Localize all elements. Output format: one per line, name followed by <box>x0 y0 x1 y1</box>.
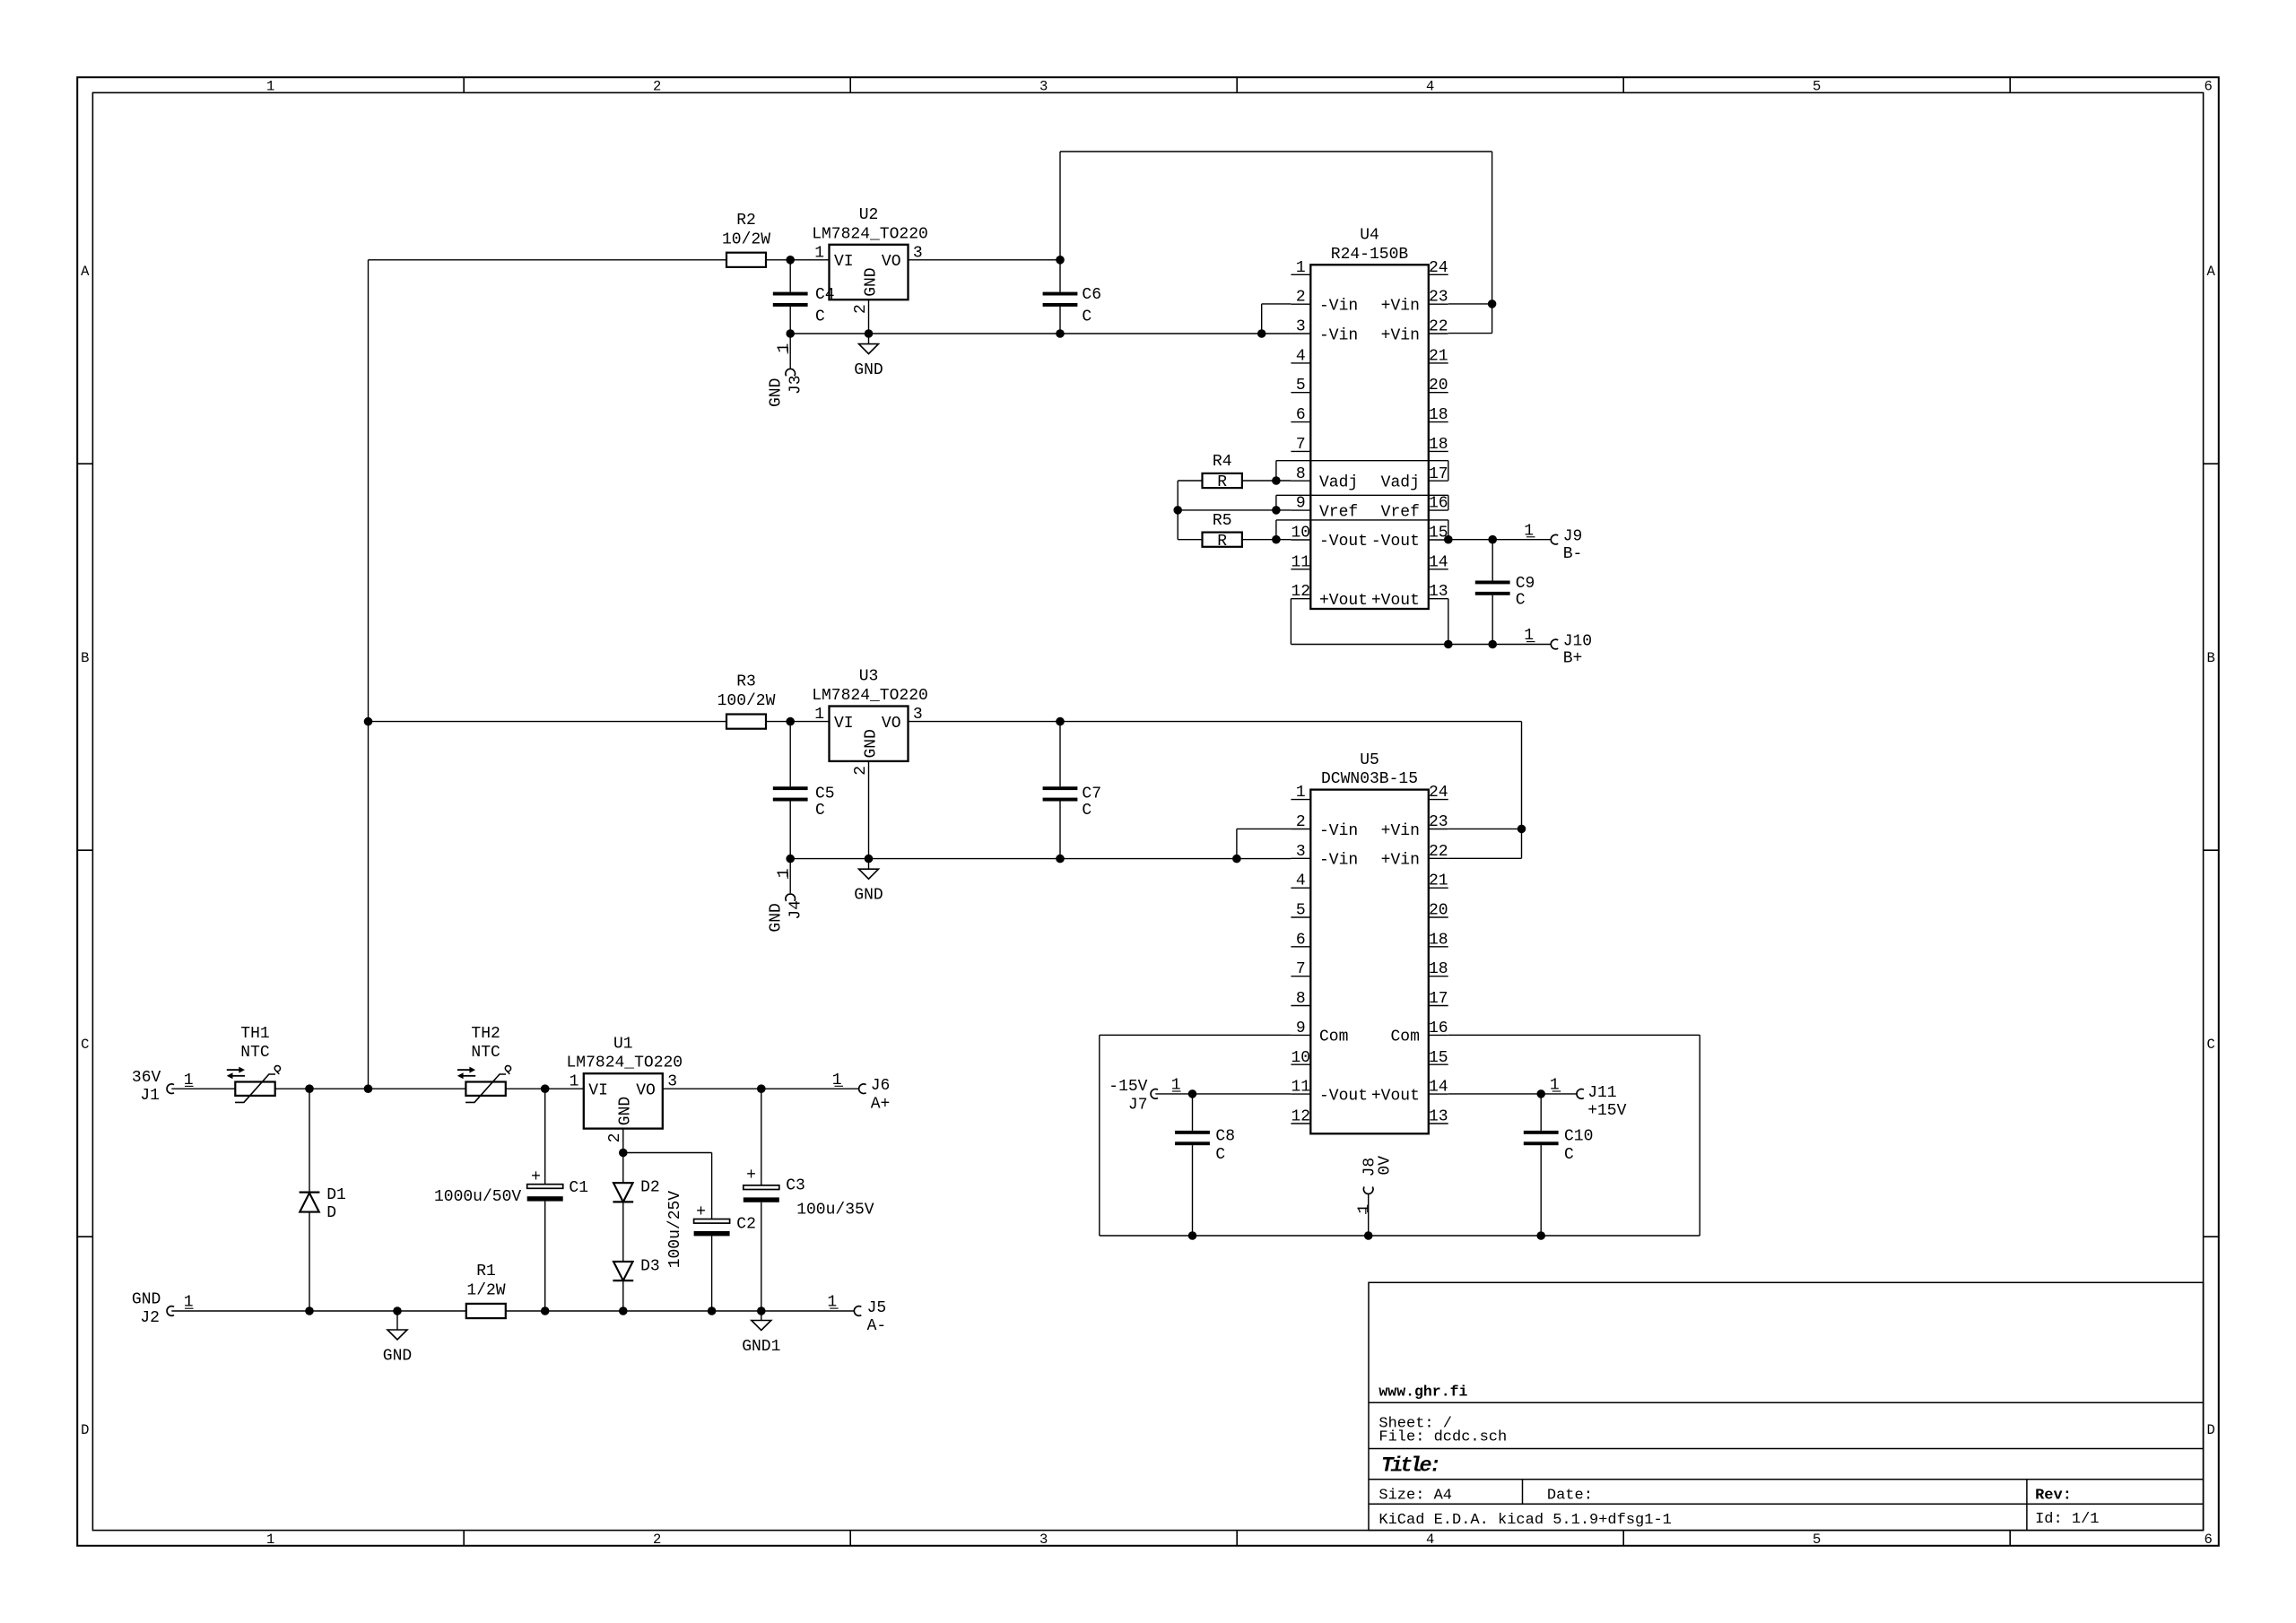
svg-text:VO: VO <box>882 253 901 271</box>
wire R4 right to pin8 <box>1242 480 1291 482</box>
svg-text:-Vout: -Vout <box>1319 1087 1368 1105</box>
connector J1 <box>167 1084 174 1094</box>
diode D3 <box>613 1262 633 1280</box>
wire J7 to -Vout pin11 <box>1155 1093 1291 1095</box>
svg-text:2: 2 <box>653 1532 661 1548</box>
junction (1664,602) <box>1488 535 1497 544</box>
U5 pin 18 <box>1429 976 1448 977</box>
U4 pin 3 -Vin <box>1291 333 1310 334</box>
svg-text:www.ghr.fi: www.ghr.fi <box>1378 1383 1467 1400</box>
svg-text:+Vin: +Vin <box>1381 326 1420 344</box>
U5 pin 6 <box>1291 946 1310 948</box>
svg-text:C1: C1 <box>569 1179 588 1197</box>
wire R5 right to pin10 <box>1242 539 1291 541</box>
U4 pin 22 +Vin <box>1429 333 1448 334</box>
svg-text:C: C <box>2207 1037 2215 1053</box>
svg-text:J11: J11 <box>1587 1084 1616 1102</box>
junction (881,290) <box>786 256 795 265</box>
svg-text:J3: J3 <box>787 375 805 395</box>
U4 pin 8 Vadj <box>1291 480 1310 482</box>
capacitor C2 <box>694 1219 730 1224</box>
svg-text:J6: J6 <box>871 1077 891 1095</box>
svg-text:11: 11 <box>1291 553 1310 571</box>
wire U2 VO to C6 <box>909 259 1061 261</box>
svg-text:R5: R5 <box>1213 512 1232 530</box>
svg-text:J2: J2 <box>140 1309 160 1327</box>
svg-text:100/2W: 100/2W <box>717 692 776 710</box>
svg-text:+: + <box>696 1203 706 1221</box>
junction (1407,372) <box>1257 329 1266 338</box>
connector J11 <box>1577 1089 1584 1099</box>
svg-text:Date:: Date: <box>1547 1488 1593 1505</box>
capacitor C9 <box>1492 540 1493 581</box>
U5 pin 1 <box>1291 799 1310 801</box>
U4 pin 17 Vadj <box>1429 480 1448 482</box>
Com loop wire <box>1100 1034 1291 1036</box>
svg-text:20: 20 <box>1429 902 1448 920</box>
U5 pin 14 +Vout <box>1429 1093 1448 1095</box>
U4 pin 1 <box>1291 273 1310 275</box>
wire pin22 U4 <box>1448 333 1492 334</box>
svg-text:GND: GND <box>768 903 786 932</box>
svg-text:C8: C8 <box>1215 1128 1235 1146</box>
svg-text:D3: D3 <box>640 1257 660 1275</box>
svg-text:2: 2 <box>852 304 870 314</box>
svg-text:C: C <box>1082 802 1091 820</box>
diode D1 <box>309 1089 310 1192</box>
junction (1615,602) <box>1444 535 1453 544</box>
capacitor C3 <box>761 1089 762 1185</box>
svg-text:+: + <box>746 1167 756 1185</box>
U5 pin 11 -Vout <box>1291 1093 1310 1095</box>
svg-text:21: 21 <box>1429 872 1448 890</box>
svg-text:-Vin: -Vin <box>1319 326 1358 344</box>
svg-text:1: 1 <box>266 1532 274 1548</box>
wire rail to U5 -Vin jog <box>1237 828 1291 829</box>
junction (410,1214) <box>364 1084 373 1093</box>
U5 pin 4 <box>1291 887 1310 889</box>
top feed wire to U4 +Vin <box>1060 151 1492 152</box>
wire pin22 U5 <box>1448 857 1522 859</box>
wire R2 to U2 VI <box>766 259 830 261</box>
svg-text:5: 5 <box>1813 1532 1821 1548</box>
svg-text:J1: J1 <box>140 1087 160 1105</box>
svg-text:4: 4 <box>1426 78 1434 94</box>
svg-text:3: 3 <box>1296 843 1306 861</box>
svg-text:File: dcdc.sch: File: dcdc.sch <box>1378 1428 1507 1445</box>
svg-text:+Vin: +Vin <box>1381 298 1420 316</box>
svg-text:1: 1 <box>1296 259 1306 277</box>
wire U1 VO to J6 <box>663 1088 859 1089</box>
svg-text:3: 3 <box>1039 78 1048 94</box>
svg-text:1/2W: 1/2W <box>466 1282 505 1300</box>
junction (1718,1378) <box>1536 1231 1545 1240</box>
svg-text:KiCad E.D.A. kicad 5.1.9+dfsg: KiCad E.D.A. kicad 5.1.9+dfsg1-1 <box>1378 1512 1671 1529</box>
svg-text:LM7824_TO220: LM7824_TO220 <box>812 225 928 243</box>
junction (1330,1378) <box>1188 1231 1197 1240</box>
svg-text:Com: Com <box>1390 1028 1419 1046</box>
svg-text:-15V: -15V <box>1109 1078 1147 1096</box>
resistor R1 <box>466 1304 506 1318</box>
svg-text:GND: GND <box>132 1291 161 1309</box>
svg-text:Size: A4: Size: A4 <box>1378 1488 1452 1505</box>
junction (968,958) <box>865 855 874 864</box>
svg-text:C: C <box>1082 308 1091 326</box>
svg-text:A: A <box>81 264 90 280</box>
U4 pin 15 -Vout <box>1429 539 1448 541</box>
svg-text:C: C <box>815 308 825 326</box>
svg-text:+Vout: +Vout <box>1319 592 1368 610</box>
wire rail to U4 -Vin jog <box>1262 303 1291 305</box>
svg-text:+15V: +15V <box>1587 1102 1626 1120</box>
junction (695,1286) <box>619 1149 628 1158</box>
svg-text:5: 5 <box>1296 902 1306 920</box>
svg-text:D: D <box>326 1204 336 1222</box>
svg-text:2: 2 <box>1296 813 1306 831</box>
svg-text:4: 4 <box>1426 1532 1434 1548</box>
svg-text:U1: U1 <box>613 1035 633 1053</box>
U5 pin 21 <box>1429 887 1448 889</box>
svg-text:1: 1 <box>775 868 793 878</box>
svg-text:1: 1 <box>814 706 824 724</box>
svg-text:1: 1 <box>570 1073 579 1091</box>
svg-text:C10: C10 <box>1564 1128 1593 1146</box>
junction (1664,718) <box>1488 640 1497 649</box>
junction (1313,569) <box>1173 506 1182 515</box>
U5 pin 18 <box>1429 946 1448 948</box>
connector J4 drop <box>789 859 791 894</box>
svg-text:A-: A- <box>867 1317 887 1335</box>
svg-text:2: 2 <box>606 1133 624 1143</box>
svg-text:14: 14 <box>1429 1079 1448 1097</box>
junction (1182,958) <box>1056 855 1065 864</box>
svg-text:6: 6 <box>2205 1532 2213 1548</box>
svg-text:NTC: NTC <box>240 1044 270 1062</box>
svg-text:GND: GND <box>854 361 883 379</box>
capacitor C6 <box>1059 260 1061 292</box>
route Vref pin9 to pin16 <box>1275 495 1277 510</box>
svg-text:2: 2 <box>653 78 661 94</box>
svg-text:C: C <box>1516 591 1526 609</box>
svg-text:7: 7 <box>1296 960 1306 978</box>
junction (410,805) <box>364 717 373 726</box>
gnd rail top section <box>790 333 1291 334</box>
U5 pin 17 <box>1429 1005 1448 1007</box>
svg-text:22: 22 <box>1429 843 1448 861</box>
svg-text:16: 16 <box>1429 1020 1448 1037</box>
svg-text:R2: R2 <box>736 212 756 230</box>
junction (345,1462) <box>305 1306 314 1315</box>
svg-text:C: C <box>1215 1146 1225 1164</box>
connector J9 <box>1551 534 1558 544</box>
connector J5 <box>854 1306 861 1316</box>
svg-text:6: 6 <box>2205 78 2213 94</box>
svg-text:C5: C5 <box>815 785 835 803</box>
junction (794,1462) <box>708 1306 717 1315</box>
resistor R5 <box>1203 533 1242 547</box>
route -Vout pin10 to pin15 <box>1275 520 1277 540</box>
svg-text:9: 9 <box>1296 1020 1306 1037</box>
svg-text:GND: GND <box>768 378 786 407</box>
U4 pin 13 +Vout <box>1429 598 1448 600</box>
U4 pin 10 -Vout <box>1291 539 1310 541</box>
junction (443,1462) <box>393 1306 402 1315</box>
junction (695,1462) <box>619 1306 628 1315</box>
wire pin2 to C2 column <box>623 1152 712 1154</box>
svg-text:3: 3 <box>1296 318 1306 336</box>
svg-text:1: 1 <box>1355 1204 1373 1214</box>
svg-text:24: 24 <box>1429 784 1448 802</box>
svg-text:4: 4 <box>1296 347 1306 365</box>
U4 pin 16 Vref <box>1429 509 1448 511</box>
regulator U2 body <box>830 245 909 299</box>
svg-text:17: 17 <box>1429 990 1448 1008</box>
svg-text:18: 18 <box>1429 931 1448 949</box>
U4 pin 5 <box>1291 392 1310 394</box>
svg-text:U3: U3 <box>859 668 879 686</box>
svg-text:D: D <box>81 1422 89 1438</box>
capacitor C8 <box>1192 1094 1194 1131</box>
U4 pin 4 <box>1291 362 1310 364</box>
svg-text:VI: VI <box>834 715 854 733</box>
svg-text:6: 6 <box>1296 931 1306 949</box>
svg-text:B-: B- <box>1563 545 1583 563</box>
wire U3 GND pin2 <box>868 761 870 859</box>
left feed vertical wire <box>368 260 370 1089</box>
wire pin15 to J9 <box>1448 539 1551 541</box>
svg-text:GND: GND <box>862 267 880 296</box>
ground symbol below U2 <box>868 334 870 344</box>
svg-text:VI: VI <box>588 1082 608 1100</box>
junction (1182,372) <box>1056 329 1065 338</box>
svg-text:-Vout: -Vout <box>1319 533 1368 551</box>
svg-text:R4: R4 <box>1213 453 1232 471</box>
svg-text:-Vout: -Vout <box>1371 533 1420 551</box>
svg-text:Id: 1/1: Id: 1/1 <box>2035 1511 2099 1528</box>
svg-text:J4: J4 <box>787 900 805 920</box>
wire +Vout pin14 to J11 <box>1448 1093 1577 1095</box>
svg-text:10: 10 <box>1291 1049 1310 1067</box>
svg-text:C: C <box>81 1037 89 1053</box>
wire TH1 to TH2 <box>275 1088 466 1089</box>
U5 pin 2 -Vin <box>1291 829 1310 830</box>
svg-text:-Vin: -Vin <box>1319 852 1358 870</box>
wire Vref row <box>1178 509 1291 511</box>
U5 pin 9 Com <box>1291 1034 1310 1036</box>
junction (608,1462) <box>541 1306 550 1315</box>
U5 pin 10 <box>1291 1063 1310 1065</box>
svg-text:23: 23 <box>1429 289 1448 307</box>
junction (1696,924) <box>1518 825 1526 834</box>
svg-text:C: C <box>815 802 825 820</box>
svg-text:1: 1 <box>1171 1077 1181 1095</box>
ground symbol GND bottom <box>396 1311 398 1330</box>
junction (1182,290) <box>1056 256 1065 265</box>
svg-text:2: 2 <box>852 766 870 776</box>
svg-text:16: 16 <box>1429 495 1448 513</box>
junction (1423,569) <box>1272 506 1281 515</box>
wire TH2 to U1 <box>506 1088 584 1089</box>
svg-text:D: D <box>2207 1422 2215 1438</box>
svg-text:18: 18 <box>1429 436 1448 454</box>
capacitor C1 <box>544 1089 546 1185</box>
svg-text:1: 1 <box>266 78 274 94</box>
U5 pin 24 <box>1429 799 1448 801</box>
svg-text:1: 1 <box>1550 1077 1560 1095</box>
wire pin23 U4 <box>1448 303 1492 305</box>
connector J3 drop <box>789 334 791 369</box>
junction (881,805) <box>786 717 795 726</box>
svg-text:24: 24 <box>1429 259 1448 277</box>
svg-text:GND: GND <box>854 887 883 905</box>
svg-text:J7: J7 <box>1128 1097 1148 1115</box>
svg-text:1: 1 <box>832 1072 842 1089</box>
B+ rail under U4 <box>1290 599 1291 645</box>
svg-text:8: 8 <box>1296 990 1306 1008</box>
svg-text:-Vin: -Vin <box>1319 822 1358 840</box>
svg-text:3: 3 <box>1039 1532 1048 1548</box>
+Vin drop wire U4 <box>1492 152 1493 334</box>
svg-text:Vref: Vref <box>1319 503 1358 521</box>
wire 36V row to R2 (top row) <box>369 259 727 261</box>
svg-text:100u/35V: 100u/35V <box>796 1202 874 1219</box>
svg-text:R1: R1 <box>476 1263 496 1280</box>
U4 pin 20 <box>1429 392 1448 394</box>
regulator U1 body <box>584 1073 663 1128</box>
svg-text:+Vin: +Vin <box>1381 852 1420 870</box>
U4 pin 2 -Vin <box>1291 303 1310 305</box>
svg-text:GND: GND <box>862 729 880 758</box>
svg-text:1: 1 <box>827 1294 837 1312</box>
IC U4 body <box>1310 265 1429 609</box>
junction (1423,602) <box>1272 535 1281 544</box>
capacitor C5 <box>789 722 791 787</box>
svg-text:36V: 36V <box>132 1069 161 1087</box>
IC U5 body <box>1310 790 1429 1134</box>
svg-text:TH1: TH1 <box>240 1025 269 1043</box>
wire C6 up to top feed <box>1059 152 1061 260</box>
junction (1182,805) <box>1056 717 1065 726</box>
U5 pin 8 <box>1291 1005 1310 1007</box>
wire R1 to J5 <box>506 1310 855 1312</box>
junction (1379,958) <box>1232 855 1241 864</box>
svg-text:+Vin: +Vin <box>1381 822 1420 840</box>
thermistor TH2 <box>465 1082 505 1096</box>
svg-text:R: R <box>1217 473 1227 491</box>
svg-text:R3: R3 <box>736 673 756 691</box>
svg-text:J5: J5 <box>867 1299 887 1317</box>
junction (1330,1220) <box>1188 1089 1197 1098</box>
svg-text:12: 12 <box>1291 583 1310 601</box>
U5 pin 16 Com <box>1429 1034 1448 1036</box>
svg-text:18: 18 <box>1429 406 1448 424</box>
svg-text:J10: J10 <box>1563 632 1592 650</box>
svg-text:8: 8 <box>1296 465 1306 483</box>
svg-text:18: 18 <box>1429 960 1448 978</box>
+Vin drop wire U5 <box>1521 722 1523 859</box>
U5 pin 13 <box>1429 1123 1448 1124</box>
svg-text:VI: VI <box>834 253 854 271</box>
wire U3 VO to C7/U5 <box>909 721 1522 723</box>
svg-text:LM7824_TO220: LM7824_TO220 <box>812 687 928 705</box>
svg-text:Title:: Title: <box>1381 1454 1439 1478</box>
thermistor TH1 <box>235 1082 274 1096</box>
junction (1718,1220) <box>1536 1089 1545 1098</box>
svg-text:20: 20 <box>1429 377 1448 395</box>
svg-text:0V: 0V <box>1377 1156 1395 1176</box>
svg-text:13: 13 <box>1429 583 1448 601</box>
svg-text:GND: GND <box>383 1348 412 1366</box>
svg-text:100u/25V: 100u/25V <box>666 1191 684 1269</box>
junction (849,1462) <box>757 1306 766 1315</box>
svg-text:C6: C6 <box>1082 286 1101 304</box>
svg-text:12: 12 <box>1291 1108 1310 1126</box>
junction (881,958) <box>786 855 795 864</box>
connector J8 stub <box>1368 1194 1370 1237</box>
svg-text:13: 13 <box>1429 1108 1448 1126</box>
wire U2 GND pin2 <box>868 299 870 334</box>
svg-text:1000u/50V: 1000u/50V <box>434 1188 521 1206</box>
U5 pin 22 +Vin <box>1429 857 1448 859</box>
gnd rail mid section <box>790 858 1291 860</box>
svg-text:D2: D2 <box>640 1179 660 1197</box>
junction (1615,718) <box>1444 640 1453 649</box>
U4 pin 9 Vref <box>1291 509 1310 511</box>
svg-text:9: 9 <box>1296 495 1306 513</box>
regulator U3 body <box>830 707 909 761</box>
svg-text:C4: C4 <box>815 286 835 304</box>
svg-text:1: 1 <box>1524 627 1534 645</box>
U4 pin 23 +Vin <box>1429 303 1448 305</box>
svg-text:A: A <box>2207 264 2216 280</box>
wire D2 to D3 <box>622 1202 624 1262</box>
svg-text:Vref: Vref <box>1381 503 1420 521</box>
svg-text:7: 7 <box>1296 436 1306 454</box>
svg-text:B: B <box>2207 650 2215 666</box>
connector J3 <box>786 369 796 376</box>
resistor R2 <box>726 253 766 267</box>
junction (1526,1378) <box>1364 1231 1373 1240</box>
diode D2 <box>622 1153 624 1184</box>
capacitor C7 <box>1059 722 1061 787</box>
junction (345,1214) <box>305 1084 314 1093</box>
U5 pin 23 +Vin <box>1429 829 1448 830</box>
svg-text:2: 2 <box>1296 289 1306 307</box>
bottom gnd rail <box>171 1310 466 1312</box>
wire R4 left down to Vref <box>1178 480 1202 482</box>
U5 pin 7 <box>1291 976 1310 977</box>
wire mid row to R3 <box>369 721 727 723</box>
junction (608,1214) <box>541 1084 550 1093</box>
capacitor C10 <box>1540 1094 1542 1131</box>
capacitor C4 <box>789 260 791 292</box>
svg-text:-Vin: -Vin <box>1319 298 1358 316</box>
svg-text:J9: J9 <box>1563 528 1583 546</box>
U5 pin 3 -Vin <box>1291 857 1310 859</box>
wire pin23 U5 <box>1448 828 1522 829</box>
U4 pin 24 <box>1429 273 1448 275</box>
junction (881,372) <box>786 329 795 338</box>
svg-text:Rev:: Rev: <box>2035 1488 2072 1505</box>
svg-text:NTC: NTC <box>471 1044 500 1062</box>
svg-text:LM7824_TO220: LM7824_TO220 <box>566 1055 683 1072</box>
connector J10 <box>1551 639 1558 649</box>
svg-text:11: 11 <box>1291 1079 1310 1097</box>
svg-text:U2: U2 <box>859 206 879 224</box>
svg-text:23: 23 <box>1429 813 1448 831</box>
U4 pin 11 <box>1291 568 1310 570</box>
connector J4 <box>786 894 796 901</box>
